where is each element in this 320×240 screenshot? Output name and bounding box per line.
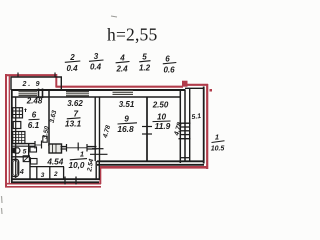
kitchen door opening — [34, 141, 36, 149]
hall nook ticks on wall 7/9 — [92, 148, 104, 150]
WC door leaf — [30, 147, 37, 152]
svg-text:11.9: 11.9 — [155, 121, 171, 131]
svg-text:3: 3 — [94, 52, 99, 61]
ticks on wall 9/10 — [142, 126, 152, 128]
svg-text:2.48: 2.48 — [26, 97, 43, 106]
step wall at hallway right — [95, 161, 97, 180]
svg-text:5: 5 — [142, 53, 147, 62]
svg-text:0.4: 0.4 — [90, 63, 102, 72]
entrance door jamb ticks — [64, 177, 66, 185]
loggia top line — [185, 87, 204, 89]
svg-text:4: 4 — [19, 169, 24, 176]
bottom wall of rooms 9/10 and loggia — [97, 160, 204, 162]
svg-text:0.6: 0.6 — [163, 66, 175, 75]
room 7 door opening — [66, 144, 68, 152]
dimension fraction 3/0.4 — [89, 52, 104, 72]
loggia/room10 window-door unit — [179, 123, 191, 139]
outer wall: right double (flat) — [179, 90, 181, 163]
room 7 window — [66, 91, 89, 97]
closet dividers — [36, 167, 38, 180]
small box with diagonal (sink 8) — [23, 156, 29, 162]
svg-text:4.54: 4.54 — [46, 157, 63, 166]
svg-text:5: 5 — [23, 149, 27, 156]
red outline: step down right of balcony — [55, 74, 57, 87]
bathtub — [12, 159, 19, 176]
outer wall: left double — [11, 89, 13, 182]
loggia left wall — [189, 88, 191, 161]
bath door leaf — [31, 159, 38, 165]
svg-text:1: 1 — [215, 133, 219, 142]
outer wall: top inner line — [12, 96, 181, 98]
kitchen vent shaft hatched — [13, 108, 23, 118]
red outline: right vertical — [206, 84, 208, 169]
svg-text:7: 7 — [74, 110, 79, 119]
red outline: top over balcony — [5, 74, 57, 76]
balcony door block — [38, 89, 40, 99]
svg-text:2: 2 — [69, 53, 75, 62]
kitchen door leaf — [43, 136, 47, 142]
bath right wall — [29, 157, 31, 180]
room 9 window — [113, 90, 134, 95]
kitchen bottom wall — [11, 143, 35, 145]
left margin pencil marks — [1, 196, 4, 203]
svg-text:16.8: 16.8 — [117, 124, 134, 134]
red outline: rise to loggia corner — [182, 81, 188, 87]
svg-text:3.62: 3.62 — [67, 99, 83, 108]
dimension fraction 4/2.4 — [115, 54, 129, 74]
red outline: loggia top — [183, 84, 208, 86]
svg-text:3: 3 — [41, 172, 45, 179]
svg-text:13.1: 13.1 — [65, 119, 82, 129]
svg-text:2.50: 2.50 — [152, 101, 169, 110]
red outline: left double vertical — [5, 74, 7, 187]
svg-text:4: 4 — [119, 54, 125, 63]
outer wall: top outer line — [11, 89, 186, 91]
svg-text:3.51: 3.51 — [119, 100, 135, 109]
svg-text:5.1: 5.1 — [191, 113, 202, 121]
kitchen sink — [13, 122, 21, 129]
svg-text:2.4: 2.4 — [115, 65, 128, 74]
red outline: bottom right segment — [100, 166, 209, 169]
balcony ticks — [17, 73, 19, 78]
svg-text:1: 1 — [80, 150, 84, 159]
tick next to vent — [25, 109, 27, 113]
bottom wall hallway part — [11, 178, 99, 180]
right outside fraction 1/10.5 — [211, 133, 225, 153]
svg-text:9: 9 — [124, 115, 129, 124]
red dot at loggia top right — [210, 89, 213, 92]
red outline: bottom left double — [5, 183, 101, 185]
svg-text:6.1: 6.1 — [28, 121, 40, 130]
svg-text:0.4: 0.4 — [66, 64, 78, 73]
svg-text:6: 6 — [32, 111, 37, 120]
dimension fraction 2/0.4 — [65, 53, 81, 73]
wall between room 9 and room 10 — [146, 97, 148, 161]
loggia outer wall — [203, 87, 205, 164]
small pencil mark above header — [111, 16, 117, 17]
svg-text:10,0: 10,0 — [69, 161, 85, 170]
wall between room 7 and room 9 (double) — [94, 97, 96, 161]
dimension fraction 6/0.6 — [163, 55, 177, 75]
kitchen stove hatched — [13, 132, 25, 144]
closet top line — [30, 166, 64, 168]
kitchen right wall — [48, 90, 50, 146]
WC/bath divider — [11, 156, 29, 158]
dimension fraction 5/1.2 — [139, 53, 151, 73]
svg-text:6: 6 — [165, 55, 170, 64]
room 7 bottom wall — [61, 146, 67, 148]
red outline: top main wall — [56, 86, 184, 88]
svg-text:h=2,55: h=2,55 — [107, 25, 157, 45]
wall gap closing line above loggia bottom — [181, 157, 191, 159]
kitchen window — [19, 91, 38, 97]
svg-text:10.5: 10.5 — [211, 146, 225, 153]
svg-text:1.2: 1.2 — [139, 64, 151, 73]
toilet — [12, 148, 20, 154]
WC right wall — [28, 144, 30, 158]
red outline: step at hallway — [99, 167, 101, 185]
built-in cupboard at hall top — [49, 144, 62, 153]
svg-text:2: 2 — [53, 171, 58, 178]
balcony top-left — [11, 77, 61, 90]
svg-text:2. 9: 2. 9 — [22, 81, 42, 88]
